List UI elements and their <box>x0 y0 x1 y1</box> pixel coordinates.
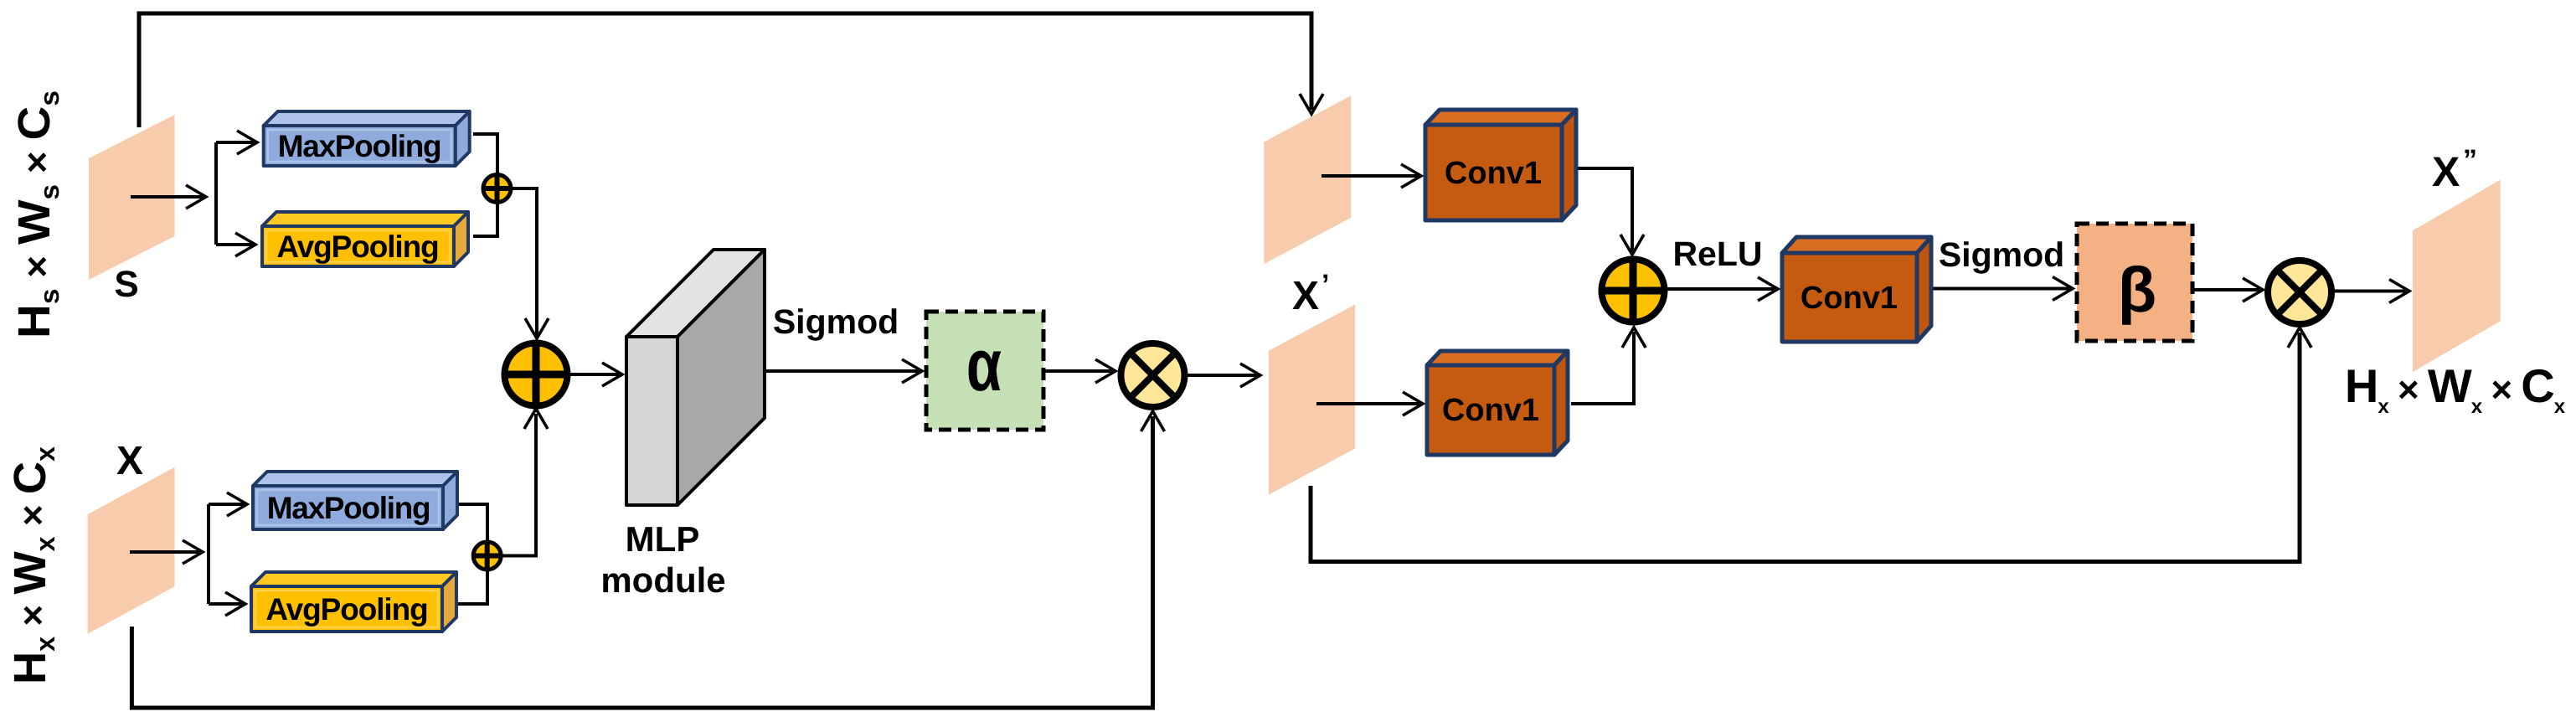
svg-text:Hs × Ws × Cs: Hs × Ws × Cs <box>9 90 64 338</box>
svg-text:α: α <box>966 323 1002 406</box>
svg-text:MaxPooling: MaxPooling <box>267 491 430 525</box>
svg-text:Hx × Wx × Cx: Hx × Wx × Cx <box>5 446 60 684</box>
svg-text:MLP: MLP <box>626 519 700 559</box>
svg-text:ReLU: ReLU <box>1672 235 1762 273</box>
svg-text:S: S <box>114 264 138 305</box>
svg-text:AvgPooling: AvgPooling <box>276 230 438 264</box>
svg-text:module: module <box>600 560 725 600</box>
svg-text:Sigmod: Sigmod <box>773 302 899 341</box>
svg-text:”: ” <box>2463 144 2477 176</box>
svg-text:Conv1: Conv1 <box>1442 393 1539 428</box>
svg-text:AvgPooling: AvgPooling <box>265 592 427 627</box>
svg-text:X: X <box>2432 148 2460 195</box>
svg-text:Hx × Wx × Cx: Hx × Wx × Cx <box>2345 359 2566 418</box>
svg-text:X: X <box>1292 274 1319 318</box>
svg-text:’: ’ <box>1321 269 1329 301</box>
svg-text:MaxPooling: MaxPooling <box>278 129 441 163</box>
svg-text:Sigmod: Sigmod <box>1939 235 2064 274</box>
svg-text:X: X <box>116 439 143 483</box>
svg-text:Conv1: Conv1 <box>1801 281 1898 316</box>
svg-text:Conv1: Conv1 <box>1445 156 1542 191</box>
svg-text:β: β <box>2118 255 2156 326</box>
